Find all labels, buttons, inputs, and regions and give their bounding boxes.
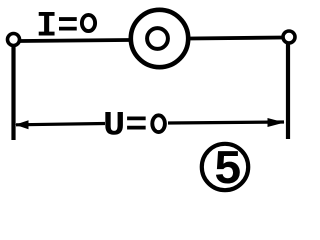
wire: right vertical from terminal <box>286 44 290 139</box>
svg-text:5: 5 <box>214 144 243 198</box>
terminal (right open circle) <box>283 31 295 43</box>
svg-text:U=: U= <box>103 108 148 146</box>
svg-text:I=: I= <box>36 7 79 47</box>
arrowhead left <box>15 120 29 129</box>
figure number circle <box>202 144 248 190</box>
dimension line left segment (U=0) <box>16 124 105 125</box>
instrument M (inner circle) <box>147 28 168 49</box>
terminal (left open circle) <box>8 34 20 46</box>
dimension line right segment <box>168 122 284 123</box>
instrument M (outer circle) <box>131 10 188 67</box>
wire: left terminal to instrument <box>20 40 130 41</box>
wire: instrument to right terminal <box>189 38 283 39</box>
wire: left vertical from terminal <box>11 46 15 140</box>
arrowhead right <box>268 118 285 127</box>
